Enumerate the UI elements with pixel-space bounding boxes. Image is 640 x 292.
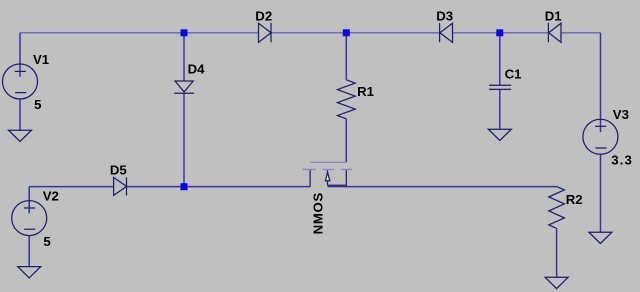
svg-text:D1: D1: [545, 9, 562, 24]
svg-text:R1: R1: [357, 84, 374, 99]
svg-text:NMOS: NMOS: [311, 192, 326, 234]
svg-text:5: 5: [34, 97, 41, 112]
svg-text:D5: D5: [110, 163, 127, 178]
svg-text:D4: D4: [188, 61, 206, 76]
svg-text:3.3: 3.3: [611, 152, 633, 167]
svg-text:D2: D2: [255, 8, 272, 23]
svg-text:V1: V1: [33, 52, 49, 67]
svg-text:V3: V3: [613, 107, 629, 122]
svg-text:C1: C1: [505, 67, 522, 82]
svg-text:5: 5: [43, 234, 50, 249]
svg-text:D3: D3: [436, 9, 453, 24]
svg-text:R2: R2: [566, 192, 583, 207]
svg-text:V2: V2: [43, 189, 59, 204]
